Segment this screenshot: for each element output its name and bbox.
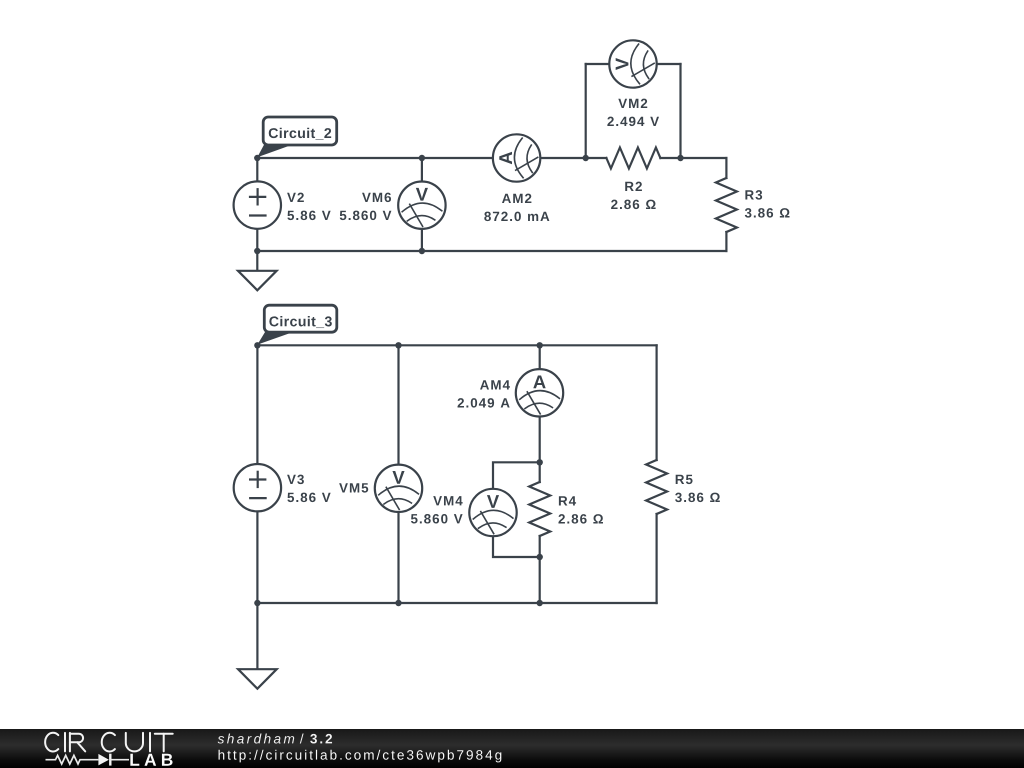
wire: R3 top lead (725, 158, 727, 178)
ammeter AM4 (516, 369, 563, 416)
ground (circuit 2) (238, 251, 277, 290)
label R4 value (559, 496, 576, 505)
wire: top rail right (R2 to R3 corner) (660, 157, 726, 159)
resistor R2 (606, 148, 660, 169)
wire: V3 branch vertical (256, 345, 258, 603)
ammeter AM2 (493, 134, 540, 181)
resistor R4 (529, 482, 550, 536)
wire: top rail left (node to R2) (257, 157, 606, 159)
voltmeter VM6 (398, 182, 445, 229)
label VM5 (339, 483, 368, 492)
wire: R4 bottom lead (539, 536, 541, 603)
footer url (219, 750, 502, 763)
junction: R4 branch bottom (537, 600, 543, 606)
voltmeter VM4 (469, 489, 516, 536)
node: Circuit_3 net / V3 top (254, 342, 260, 348)
junction: VM4 bottom / R4 bottom (537, 554, 543, 560)
ground (circuit 3) (238, 603, 277, 689)
wire: R5 bottom lead (655, 514, 657, 603)
wire: VM2 right vertical (679, 64, 681, 158)
net flag Circuit_2 (257, 117, 336, 157)
junction: R2 left / VM2 left (583, 155, 589, 161)
voltmeter VM2 (609, 40, 656, 87)
label VM2 value (618, 99, 647, 108)
wire: VM2 top horizontal (586, 63, 681, 65)
junction: VM4 top / R4 top (537, 459, 543, 465)
wire: R3 bottom lead (725, 232, 727, 251)
voltage source V3 (234, 464, 281, 511)
label V3 value (287, 475, 304, 485)
label VM4 value (433, 496, 462, 505)
junction: V2 bottom / ground (254, 248, 260, 254)
logo resistor glyph (46, 755, 99, 764)
wire: VM5 branch vertical (397, 345, 399, 603)
junction: VM6 top (419, 155, 425, 161)
label R2 value (625, 182, 642, 191)
label VM6 value (362, 193, 391, 202)
resistor R3 (716, 178, 737, 232)
wire: bottom rail (257, 602, 656, 604)
junction: R2 right / VM2 right (677, 155, 683, 161)
label R5 value (676, 475, 693, 484)
wire: VM2 left vertical (585, 64, 587, 158)
footer title: shardham / 3.2 (218, 734, 295, 744)
label AM2 value (502, 194, 531, 203)
label R3 value (745, 190, 762, 200)
net flag Circuit_3 (257, 305, 336, 344)
wire: V2 branch vertical (256, 158, 258, 251)
junction: V3 bottom / ground (254, 600, 260, 606)
wire: bottom rail (257, 250, 726, 252)
node: Circuit_2 net / V2 top (254, 155, 260, 161)
label V2 value (287, 193, 304, 202)
voltage source V2 (234, 181, 281, 228)
label AM4 value (480, 380, 510, 389)
logo LAB text (130, 754, 172, 766)
wire: AM4/R4 branch upper (539, 345, 541, 482)
junction: AM4 top (537, 342, 543, 348)
logo diode glyph (98, 754, 109, 766)
CircuitLab logo wordmark CIRCUIT (45, 733, 173, 752)
wire: VM6 branch vertical (421, 158, 423, 251)
wire: VM4 loop (left of R4) (493, 462, 540, 557)
wire: top rail (257, 344, 656, 346)
junction: VM5 top (395, 342, 401, 348)
wire: R5 top lead (655, 345, 657, 460)
resistor R5 (646, 460, 667, 514)
voltmeter VM5 (375, 465, 422, 512)
junction: VM6 bottom (419, 248, 425, 254)
junction: VM5 bottom (395, 600, 401, 606)
footer bar background (0, 729, 1024, 768)
